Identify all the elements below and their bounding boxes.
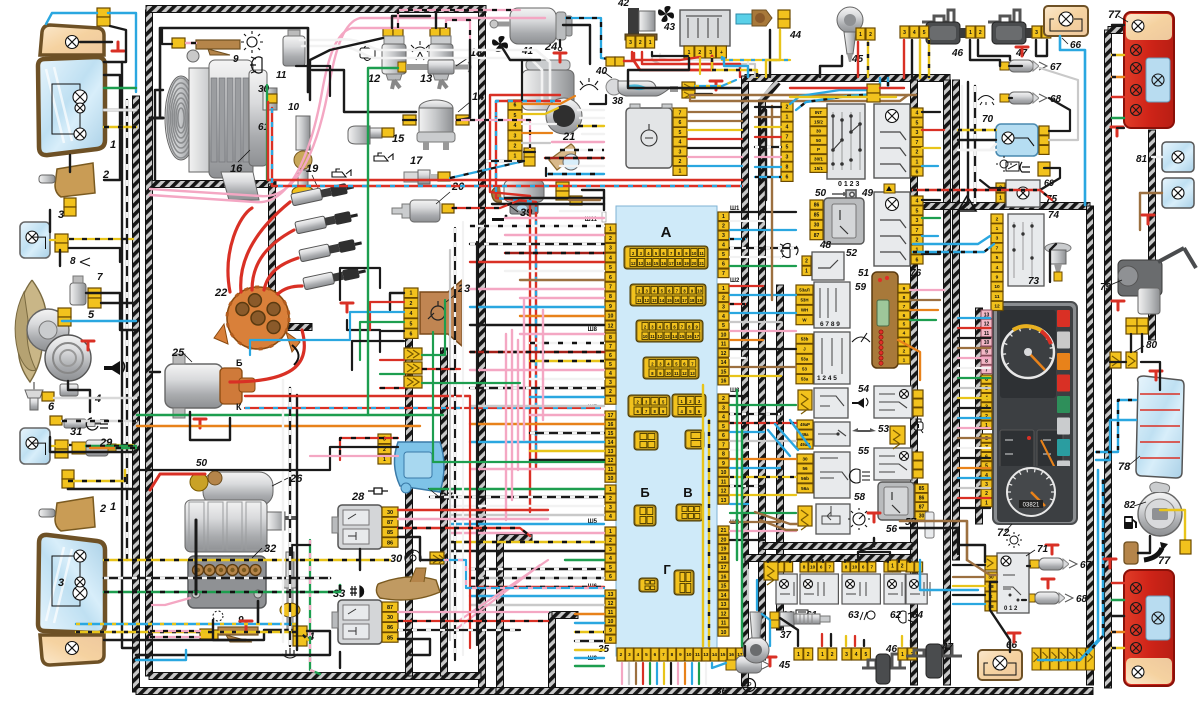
svg-text:14: 14 bbox=[712, 652, 718, 657]
svg-text:4: 4 bbox=[996, 265, 999, 271]
svg-text:1: 1 bbox=[903, 358, 906, 364]
svg-text:4: 4 bbox=[855, 652, 858, 658]
svg-text:81: 81 bbox=[1136, 154, 1148, 165]
svg-text:13: 13 bbox=[665, 334, 670, 339]
svg-text:3: 3 bbox=[609, 547, 612, 553]
svg-text:1: 1 bbox=[821, 652, 824, 658]
svg-text:87: 87 bbox=[387, 605, 393, 611]
svg-text:30: 30 bbox=[390, 553, 403, 565]
svg-text:13: 13 bbox=[608, 592, 614, 598]
svg-text:5: 5 bbox=[645, 652, 648, 657]
svg-text:1: 1 bbox=[609, 529, 612, 535]
svg-text:2: 2 bbox=[831, 652, 834, 658]
svg-text:6: 6 bbox=[820, 565, 823, 570]
svg-text:86: 86 bbox=[387, 625, 393, 631]
svg-text:5: 5 bbox=[410, 321, 413, 327]
svg-text:7: 7 bbox=[722, 271, 725, 277]
svg-text:15: 15 bbox=[667, 298, 672, 303]
svg-text:8: 8 bbox=[70, 256, 76, 267]
svg-text:4: 4 bbox=[903, 331, 906, 337]
svg-text:8: 8 bbox=[786, 165, 789, 171]
svg-text:71: 71 bbox=[1037, 544, 1049, 555]
svg-text:57: 57 bbox=[905, 517, 917, 528]
svg-text:8: 8 bbox=[722, 452, 725, 458]
svg-text:7: 7 bbox=[829, 565, 832, 570]
svg-text:2: 2 bbox=[901, 563, 904, 569]
svg-text:5: 5 bbox=[786, 145, 789, 151]
svg-text:46: 46 bbox=[951, 48, 964, 59]
svg-text:55: 55 bbox=[858, 446, 870, 457]
svg-text:66: 66 bbox=[1006, 640, 1018, 651]
svg-text:10: 10 bbox=[721, 332, 727, 338]
svg-text:2: 2 bbox=[609, 236, 612, 242]
svg-text:3: 3 bbox=[722, 233, 725, 239]
svg-text:2: 2 bbox=[722, 396, 725, 402]
svg-text:6: 6 bbox=[609, 574, 612, 580]
svg-text:10: 10 bbox=[608, 619, 614, 625]
svg-text:+: + bbox=[720, 50, 723, 56]
svg-text:6: 6 bbox=[862, 565, 865, 570]
svg-text:6: 6 bbox=[48, 401, 55, 413]
svg-text:2: 2 bbox=[639, 40, 642, 46]
svg-text:19: 19 bbox=[721, 547, 727, 553]
svg-text:2: 2 bbox=[679, 159, 682, 165]
svg-text:15: 15 bbox=[721, 584, 727, 590]
svg-text:14: 14 bbox=[660, 298, 665, 303]
svg-text:1: 1 bbox=[514, 154, 517, 160]
svg-text:1: 1 bbox=[996, 226, 999, 232]
svg-text:16: 16 bbox=[687, 334, 692, 339]
svg-text:2: 2 bbox=[698, 50, 701, 56]
svg-text:14: 14 bbox=[721, 360, 727, 366]
svg-text:1: 1 bbox=[999, 196, 1002, 202]
svg-text:Б: Б bbox=[640, 485, 649, 500]
svg-text:1: 1 bbox=[383, 457, 386, 463]
svg-text:54: 54 bbox=[858, 384, 870, 395]
svg-text:1: 1 bbox=[985, 500, 988, 506]
svg-text:30: 30 bbox=[802, 456, 808, 461]
svg-text:15/2: 15/2 bbox=[814, 119, 823, 124]
svg-text:11: 11 bbox=[608, 610, 614, 616]
svg-text:3: 3 bbox=[1035, 30, 1038, 36]
svg-text:11: 11 bbox=[695, 652, 700, 657]
svg-text:3: 3 bbox=[609, 246, 612, 252]
svg-text:4: 4 bbox=[786, 125, 789, 131]
svg-text:17: 17 bbox=[694, 334, 699, 339]
svg-text:85: 85 bbox=[814, 213, 820, 219]
svg-text:7: 7 bbox=[662, 652, 665, 657]
svg-text:68: 68 bbox=[1076, 594, 1088, 605]
svg-text:9: 9 bbox=[903, 286, 906, 292]
svg-text:14: 14 bbox=[646, 261, 651, 266]
svg-text:P: P bbox=[817, 147, 820, 152]
svg-text:11: 11 bbox=[721, 479, 727, 485]
svg-text:87: 87 bbox=[387, 520, 393, 526]
svg-text:14: 14 bbox=[472, 91, 484, 103]
svg-text:P: P bbox=[746, 681, 751, 690]
svg-text:1: 1 bbox=[110, 501, 116, 513]
svg-text:21: 21 bbox=[699, 261, 704, 266]
svg-text:30: 30 bbox=[814, 223, 820, 229]
svg-text:3: 3 bbox=[916, 130, 919, 136]
svg-text:1: 1 bbox=[609, 487, 612, 493]
svg-text:19: 19 bbox=[697, 298, 702, 303]
svg-text:50: 50 bbox=[815, 188, 827, 199]
svg-text:6: 6 bbox=[654, 652, 657, 657]
svg-text:15/1: 15/1 bbox=[814, 166, 823, 171]
svg-text:17: 17 bbox=[608, 413, 614, 419]
svg-text:10: 10 bbox=[721, 630, 727, 636]
svg-text:Г: Г bbox=[663, 562, 671, 577]
svg-text:85: 85 bbox=[919, 486, 925, 492]
svg-text:41: 41 bbox=[521, 46, 534, 57]
svg-text:2: 2 bbox=[869, 32, 872, 38]
svg-text:6: 6 bbox=[609, 275, 612, 281]
svg-text:4: 4 bbox=[679, 140, 682, 146]
svg-text:1: 1 bbox=[609, 226, 612, 232]
svg-text:82: 82 bbox=[1124, 500, 1136, 511]
svg-text:16: 16 bbox=[608, 422, 614, 428]
svg-text:18: 18 bbox=[676, 261, 681, 266]
svg-text:5: 5 bbox=[609, 362, 612, 368]
svg-text:17: 17 bbox=[669, 261, 674, 266]
svg-text:50: 50 bbox=[816, 138, 822, 143]
svg-text:К: К bbox=[236, 402, 242, 412]
svg-text:77: 77 bbox=[1158, 555, 1171, 567]
svg-text:3: 3 bbox=[679, 149, 682, 155]
svg-text:10: 10 bbox=[810, 565, 816, 570]
svg-text:12: 12 bbox=[644, 298, 649, 303]
svg-text:6: 6 bbox=[514, 103, 517, 109]
svg-text:56a: 56a bbox=[801, 486, 809, 491]
svg-text:30: 30 bbox=[919, 514, 925, 520]
svg-text:Ш3: Ш3 bbox=[730, 388, 740, 394]
svg-text:5: 5 bbox=[88, 309, 95, 321]
svg-text:13: 13 bbox=[721, 498, 727, 504]
svg-text:5: 5 bbox=[865, 652, 868, 658]
svg-text:4: 4 bbox=[609, 371, 612, 377]
svg-text:12: 12 bbox=[984, 322, 990, 328]
svg-text:59: 59 bbox=[855, 282, 867, 293]
svg-text:6: 6 bbox=[609, 353, 612, 359]
svg-text:12: 12 bbox=[682, 371, 687, 376]
svg-text:3: 3 bbox=[629, 40, 632, 46]
svg-text:16: 16 bbox=[661, 261, 666, 266]
svg-text:86: 86 bbox=[387, 540, 393, 546]
svg-text:7: 7 bbox=[97, 272, 103, 283]
svg-text:5: 5 bbox=[923, 30, 926, 36]
svg-text:56: 56 bbox=[886, 524, 898, 535]
svg-text:2: 2 bbox=[514, 143, 517, 149]
svg-text:10: 10 bbox=[608, 314, 614, 320]
svg-text:А: А bbox=[661, 224, 672, 241]
svg-text:9: 9 bbox=[985, 349, 988, 355]
svg-text:30: 30 bbox=[387, 615, 393, 621]
svg-text:WH: WH bbox=[801, 307, 808, 312]
svg-text:53: 53 bbox=[802, 367, 807, 372]
svg-text:49аР: 49аР bbox=[800, 422, 810, 427]
svg-text:11: 11 bbox=[699, 251, 704, 256]
svg-text:38: 38 bbox=[612, 96, 624, 107]
svg-text:28: 28 bbox=[351, 491, 365, 503]
svg-text:6: 6 bbox=[916, 169, 919, 175]
svg-text:8: 8 bbox=[985, 359, 988, 365]
svg-text:11: 11 bbox=[637, 298, 642, 303]
svg-text:2: 2 bbox=[609, 538, 612, 544]
svg-text:4: 4 bbox=[514, 123, 517, 129]
svg-text:16: 16 bbox=[729, 652, 735, 657]
svg-text:8: 8 bbox=[671, 652, 674, 657]
svg-text:9: 9 bbox=[609, 628, 612, 634]
svg-text:INT: INT bbox=[815, 110, 823, 115]
svg-text:17: 17 bbox=[721, 565, 727, 571]
svg-text:8: 8 bbox=[845, 565, 848, 570]
svg-text:37: 37 bbox=[780, 630, 792, 641]
svg-text:3: 3 bbox=[903, 30, 906, 36]
svg-text:6 7 8 9: 6 7 8 9 bbox=[820, 321, 840, 328]
svg-text:87: 87 bbox=[814, 233, 820, 239]
svg-text:0 1 2 3: 0 1 2 3 bbox=[838, 181, 860, 188]
svg-text:86: 86 bbox=[919, 495, 925, 501]
svg-text:5: 5 bbox=[996, 255, 999, 261]
svg-text:3: 3 bbox=[996, 236, 999, 242]
svg-text:8: 8 bbox=[803, 565, 806, 570]
svg-text:5: 5 bbox=[609, 265, 612, 271]
svg-text:7: 7 bbox=[609, 284, 612, 290]
svg-text:22: 22 bbox=[214, 287, 227, 299]
svg-text:12: 12 bbox=[368, 73, 380, 85]
svg-text:62: 62 bbox=[890, 610, 902, 621]
svg-text:10: 10 bbox=[721, 470, 727, 476]
svg-text:13: 13 bbox=[690, 371, 695, 376]
svg-text:43: 43 bbox=[663, 22, 676, 33]
svg-text:Ш2: Ш2 bbox=[730, 278, 740, 284]
svg-text:11: 11 bbox=[984, 331, 990, 337]
svg-text:53a: 53a bbox=[801, 356, 809, 361]
svg-text:1: 1 bbox=[110, 139, 116, 151]
svg-text:31: 31 bbox=[70, 426, 82, 438]
svg-text:20: 20 bbox=[721, 537, 727, 543]
svg-text:4: 4 bbox=[913, 30, 916, 36]
svg-text:19: 19 bbox=[684, 261, 689, 266]
svg-text:2: 2 bbox=[786, 105, 789, 111]
svg-text:53Н: 53Н bbox=[800, 297, 808, 302]
svg-text:2: 2 bbox=[916, 238, 919, 244]
svg-text:4: 4 bbox=[410, 311, 413, 317]
svg-text:13: 13 bbox=[721, 602, 727, 608]
svg-text:1: 1 bbox=[722, 214, 725, 220]
svg-text:15: 15 bbox=[680, 334, 685, 339]
svg-text:6: 6 bbox=[722, 433, 725, 439]
svg-text:15: 15 bbox=[720, 652, 726, 657]
svg-text:3: 3 bbox=[58, 577, 64, 589]
svg-text:6: 6 bbox=[722, 262, 725, 268]
svg-text:70: 70 bbox=[982, 114, 994, 125]
svg-text:10: 10 bbox=[852, 565, 858, 570]
svg-text:10: 10 bbox=[994, 284, 1000, 290]
svg-text:15: 15 bbox=[721, 369, 727, 375]
svg-text:53аЛ: 53аЛ bbox=[799, 287, 809, 292]
svg-text:12: 12 bbox=[631, 261, 636, 266]
svg-text:12: 12 bbox=[608, 601, 614, 607]
svg-text:3: 3 bbox=[916, 218, 919, 224]
svg-text:19: 19 bbox=[306, 163, 319, 175]
svg-text:4: 4 bbox=[609, 556, 612, 562]
svg-text:12: 12 bbox=[721, 351, 727, 357]
svg-text:8: 8 bbox=[609, 637, 612, 643]
svg-text:10: 10 bbox=[697, 289, 702, 294]
svg-text:53: 53 bbox=[878, 424, 890, 435]
svg-text:5: 5 bbox=[722, 424, 725, 430]
svg-text:2: 2 bbox=[805, 259, 808, 265]
svg-text:47: 47 bbox=[941, 642, 954, 653]
svg-text:5: 5 bbox=[609, 565, 612, 571]
svg-text:46: 46 bbox=[885, 644, 898, 655]
svg-text:2: 2 bbox=[916, 150, 919, 156]
svg-text:1: 1 bbox=[969, 30, 972, 36]
svg-text:40: 40 bbox=[595, 66, 608, 77]
svg-text:87: 87 bbox=[919, 505, 925, 511]
svg-text:6: 6 bbox=[410, 331, 413, 337]
svg-text:18: 18 bbox=[690, 298, 695, 303]
svg-text:12: 12 bbox=[721, 489, 727, 495]
svg-text:11: 11 bbox=[994, 294, 999, 300]
svg-text:11: 11 bbox=[721, 342, 727, 348]
svg-text:79: 79 bbox=[1100, 282, 1112, 293]
svg-text:5: 5 bbox=[679, 130, 682, 136]
svg-text:7: 7 bbox=[722, 442, 725, 448]
svg-text:14: 14 bbox=[721, 593, 727, 599]
svg-text:9: 9 bbox=[609, 304, 612, 310]
svg-text:5: 5 bbox=[916, 208, 919, 214]
svg-text:80: 80 bbox=[1146, 340, 1158, 351]
svg-text:78: 78 bbox=[1118, 461, 1131, 473]
svg-text:2: 2 bbox=[410, 301, 413, 307]
svg-text:3: 3 bbox=[786, 155, 789, 161]
svg-text:1: 1 bbox=[688, 50, 691, 56]
svg-text:13: 13 bbox=[608, 449, 614, 455]
svg-text:10: 10 bbox=[608, 476, 614, 482]
svg-text:49: 49 bbox=[861, 188, 874, 199]
svg-text:1: 1 bbox=[916, 159, 919, 165]
svg-text:11: 11 bbox=[608, 467, 614, 473]
svg-text:1: 1 bbox=[786, 115, 789, 121]
svg-text:56b: 56b bbox=[801, 476, 809, 481]
svg-text:77: 77 bbox=[1108, 9, 1121, 21]
svg-text:3: 3 bbox=[628, 652, 631, 657]
svg-text:85: 85 bbox=[387, 530, 393, 536]
svg-text:30: 30 bbox=[816, 129, 822, 134]
svg-text:8: 8 bbox=[903, 295, 906, 301]
svg-text:1: 1 bbox=[649, 40, 652, 46]
svg-text:4: 4 bbox=[722, 314, 725, 320]
svg-text:7: 7 bbox=[903, 304, 906, 310]
svg-text:8: 8 bbox=[609, 294, 612, 300]
svg-text:7: 7 bbox=[871, 565, 874, 570]
svg-text:4: 4 bbox=[609, 514, 612, 520]
svg-text:1: 1 bbox=[609, 398, 612, 404]
svg-text:2: 2 bbox=[903, 349, 906, 355]
svg-text:74: 74 bbox=[1048, 210, 1060, 221]
svg-text:2: 2 bbox=[609, 496, 612, 502]
svg-text:17: 17 bbox=[410, 155, 423, 167]
svg-text:11: 11 bbox=[674, 371, 679, 376]
svg-text:17: 17 bbox=[682, 298, 687, 303]
svg-text:12: 12 bbox=[608, 458, 614, 464]
svg-text:51: 51 bbox=[858, 268, 870, 279]
svg-text:13: 13 bbox=[638, 261, 643, 266]
svg-text:30: 30 bbox=[387, 510, 393, 516]
svg-text:53b: 53b bbox=[801, 336, 809, 341]
svg-text:10: 10 bbox=[666, 371, 671, 376]
svg-text:30/1: 30/1 bbox=[814, 156, 823, 161]
svg-text:10: 10 bbox=[984, 340, 990, 346]
svg-text:2: 2 bbox=[620, 652, 623, 657]
svg-text:9: 9 bbox=[996, 275, 999, 281]
svg-text:11: 11 bbox=[276, 70, 287, 81]
svg-text:13: 13 bbox=[703, 652, 709, 657]
svg-text:2: 2 bbox=[722, 295, 725, 301]
svg-text:16: 16 bbox=[721, 574, 727, 580]
svg-text:44: 44 bbox=[789, 30, 802, 41]
svg-text:0 1 2: 0 1 2 bbox=[1004, 606, 1018, 612]
svg-text:Ш8: Ш8 bbox=[588, 327, 598, 333]
svg-text:16: 16 bbox=[675, 298, 680, 303]
svg-text:32: 32 bbox=[264, 543, 276, 555]
svg-text:1: 1 bbox=[722, 286, 725, 292]
svg-text:53a: 53a bbox=[801, 377, 809, 382]
svg-text:6: 6 bbox=[679, 120, 682, 126]
svg-text:7: 7 bbox=[916, 228, 919, 234]
svg-text:4: 4 bbox=[637, 652, 640, 657]
svg-text:63: 63 bbox=[848, 610, 860, 621]
svg-text:1: 1 bbox=[679, 169, 682, 175]
svg-text:7: 7 bbox=[679, 110, 682, 116]
svg-text:В: В bbox=[683, 485, 692, 500]
svg-text:42: 42 bbox=[617, 0, 630, 9]
svg-text:13: 13 bbox=[420, 73, 432, 85]
svg-text:2: 2 bbox=[722, 224, 725, 230]
svg-text:9: 9 bbox=[722, 461, 725, 467]
svg-text:4: 4 bbox=[916, 198, 919, 204]
svg-text:64: 64 bbox=[912, 610, 924, 621]
svg-text:3: 3 bbox=[845, 652, 848, 658]
svg-text:3: 3 bbox=[609, 505, 612, 511]
svg-text:7: 7 bbox=[996, 245, 999, 251]
svg-text:56: 56 bbox=[802, 466, 808, 471]
svg-text:7: 7 bbox=[609, 344, 612, 350]
svg-text:36: 36 bbox=[716, 686, 728, 697]
svg-text:5: 5 bbox=[916, 120, 919, 126]
svg-text:Б: Б bbox=[236, 358, 243, 368]
svg-text:13: 13 bbox=[652, 298, 657, 303]
svg-text:86: 86 bbox=[814, 203, 820, 209]
svg-text:12: 12 bbox=[721, 611, 727, 617]
svg-text:52: 52 bbox=[846, 248, 858, 259]
svg-text:11: 11 bbox=[650, 334, 655, 339]
svg-text:6: 6 bbox=[903, 313, 906, 319]
svg-text:1: 1 bbox=[797, 652, 800, 658]
svg-text:58: 58 bbox=[854, 492, 866, 503]
svg-text:03821: 03821 bbox=[1023, 503, 1040, 509]
svg-text:76: 76 bbox=[910, 268, 922, 279]
svg-text:2: 2 bbox=[807, 652, 810, 658]
svg-text:14: 14 bbox=[672, 334, 677, 339]
svg-text:3: 3 bbox=[722, 305, 725, 311]
svg-text:2: 2 bbox=[99, 503, 106, 515]
svg-text:73: 73 bbox=[1028, 276, 1040, 287]
svg-text:3: 3 bbox=[609, 380, 612, 386]
